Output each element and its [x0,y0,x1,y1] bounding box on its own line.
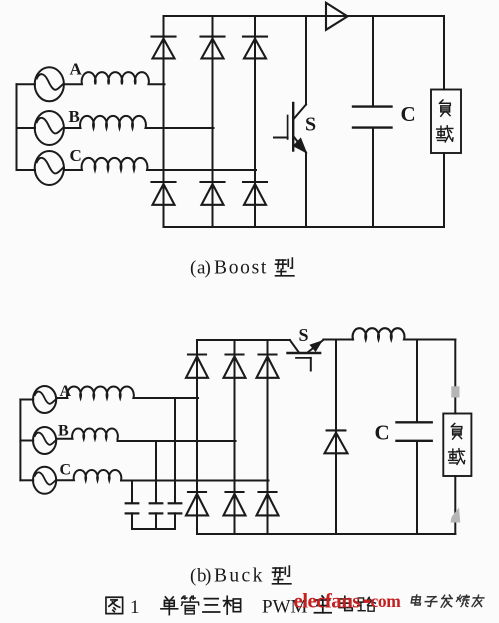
inductor Lb (b) + wire to bridge [56,429,235,441]
diode D6b (bottom leg3) [257,492,279,515]
svg-text:B: B [69,107,80,126]
caption 型 (b) [273,566,291,584]
inductor Lc (b) + wire to bridge [56,470,268,480]
wire: filter cap leg from phase C [131,481,133,504]
wire: stub to source C [17,169,36,171]
svg-text:A: A [70,60,83,79]
wire: capacitor branch bottom (a) [372,128,374,227]
filter capacitor Cc [126,503,139,513]
svg-text:Buck: Buck [214,566,265,587]
wire: stub to source A [17,83,36,85]
boost diode D7 [326,3,348,30]
wire: bridge leg 2 (a) [212,16,214,227]
AC source C (b) [33,467,56,494]
watermark 电子发烧友 [411,595,485,607]
diode D3b (top leg3) [257,355,279,378]
filter capacitor Ca [169,503,182,513]
AC source B (b) [33,427,56,454]
diode D2b (top leg2) [224,355,246,378]
filter capacitor Cb [150,503,163,513]
figure caption 主电路 [314,596,331,613]
wire: load branch bottom (a) [443,153,445,227]
svg-text:S: S [299,325,309,345]
diode D2 (top leg2) [201,37,225,59]
transistor S (IGBT, b, horizontal) [288,340,324,371]
svg-text:C: C [60,462,72,479]
wire: freewheel branch (b) [335,340,337,535]
inductor L (b) [353,328,456,339]
AC source B [35,111,64,145]
load text 负载 (b) [451,423,461,439]
diode D3 (top leg3) [243,37,267,59]
wire: top rail (a) [164,15,445,17]
wire: stub to source C (b) [20,479,33,481]
freewheel diode D7b [325,430,348,453]
wire: from S to inductor [323,339,353,341]
wire: bridge leg 1 (b) [196,340,198,534]
wire: cap bank bottom stubs and rail [132,513,175,529]
wire: load branch top (a) [443,16,445,90]
diode D5b (bottom leg2) [224,492,246,515]
wire: switch branch top (a) [305,16,307,105]
diode D6 (bottom leg3) [243,182,267,205]
wire: filter cap leg from phase A [174,398,176,503]
capacitor C (b) [397,422,432,441]
svg-text:1: 1 [130,597,140,618]
inductor La (b) + wire to bridge [56,387,198,400]
inductor La + wire to bridge [64,72,165,84]
wire: stub to source B (b) [20,440,33,442]
svg-text:com: com [371,591,402,611]
load text 负载 (a) [439,100,450,116]
wire: bridge leg 1 (a) [163,16,165,227]
svg-text:S: S [305,114,316,136]
AC source A [35,67,64,101]
svg-text:C: C [375,421,390,445]
svg-text:elecfans: elecfans [294,589,361,613]
wire: stub to source A (b) [20,399,33,401]
svg-text:C: C [401,102,416,126]
wire: capacitor branch top (b) [416,340,418,423]
diode D4b (bottom leg1) [186,492,208,515]
inductor Lc + wire to bridge [64,158,256,170]
diode D4 (bottom leg1) [152,182,176,205]
wire: bottom rail (a) [164,226,445,228]
capacitor C (a) [353,107,392,128]
svg-text:B: B [58,423,69,440]
wire: load branch bottom (b) [454,476,456,534]
diode D1b (top leg1) [186,355,208,378]
svg-text:Boost: Boost [214,258,268,279]
wire: left bus (b) [19,400,21,481]
AC source C [35,151,64,185]
wire: bottom rail (b) [197,533,455,535]
figure caption 单管三相 [161,597,178,615]
load box (b) [443,414,471,477]
wire: capacitor branch bottom (b) [416,441,418,534]
wire: top rail (b) [197,339,290,341]
diode D1 (top leg1) [152,37,176,59]
wire: bridge leg 3 (b) [267,340,269,534]
svg-text:A: A [60,383,72,400]
wire: load branch top (b) [454,340,456,414]
figure caption 图 1 [106,597,123,613]
wire: bridge leg 3 (a) [254,16,256,227]
svg-text:(: ( [190,566,196,587]
load box (a) [431,90,461,154]
grey artifact above load (b) [451,386,459,397]
diode D5 (bottom leg2) [201,182,225,205]
wire: capacitor branch top (a) [372,16,374,106]
svg-text:): ) [205,258,211,279]
wire: switch branch bottom (a) [305,153,307,228]
transistor S (IGBT, a) [274,103,306,153]
caption 型 (a) [276,258,294,276]
inductor Lb + wire to bridge [64,116,214,128]
svg-text:C: C [70,146,82,165]
svg-text:(: ( [190,258,196,279]
wire: left bus (a) [16,84,18,170]
svg-text:): ) [205,566,211,587]
wire: filter cap leg from phase B [155,441,157,503]
wire: stub to source B [17,127,36,129]
grey artifact below load (b) [451,508,461,523]
wire: bridge leg 2 (b) [234,340,236,534]
AC source A (b) [33,386,56,413]
